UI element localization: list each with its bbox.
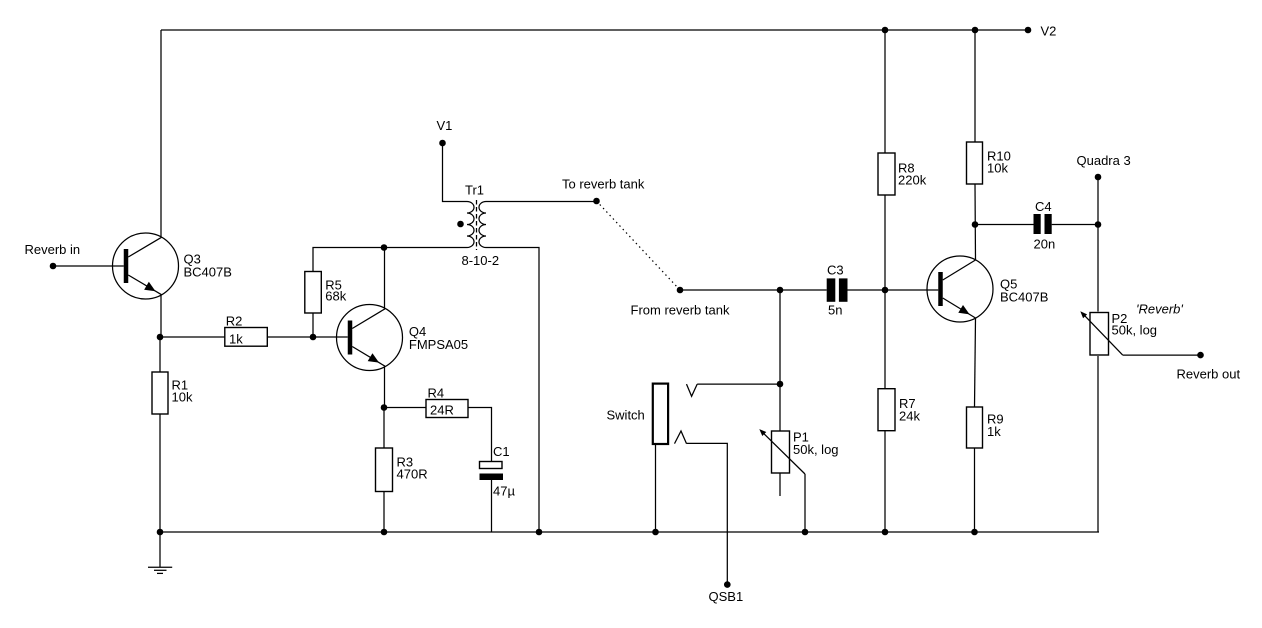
wire R2 to node B [267,336,313,338]
transistor Q4 [337,305,469,371]
wire node to Q4 base [313,336,348,338]
wire R5 top to transformer primary bottom [313,248,467,272]
switch jack body [607,384,669,444]
svg-text:Tr1: Tr1 [465,183,484,198]
svg-text:470R: 470R [397,467,428,482]
resistor R4 [426,386,468,418]
resistor R5 [305,272,347,314]
wire R8 to node [884,195,886,290]
wire dotted link to From reverb tank [597,201,681,290]
wire node to R2 [160,336,225,338]
wire node to R4 [384,407,426,409]
svg-text:V1: V1 [437,118,453,133]
wire node to R1 [159,337,161,372]
node rail at switch [652,529,659,536]
capacitor C4 [1034,199,1056,252]
resistor R7 [878,389,920,431]
wire R4 to C1 [468,408,492,462]
wire bottom ground rail [160,531,1099,533]
svg-text:1k: 1k [229,332,243,347]
wire R3 to rail [383,492,385,533]
wire node up to R5 [312,313,314,337]
capacitor C3 [827,263,848,318]
wire V1 to transformer [443,143,468,202]
svg-text:220k: 220k [898,173,927,188]
node Quadra wire at C4 [1095,221,1102,228]
wire P2 bottom to rail [1097,356,1099,532]
svg-text:BC407B: BC407B [1000,290,1048,305]
terminal To reverb tank [562,177,645,205]
wire transformer secondary bottom down to rail [486,248,539,533]
wire P1 stub [779,473,781,497]
svg-text:Switch: Switch [607,408,645,423]
terminal V2 [1025,24,1057,39]
wire transformer secondary top to To reverb tank [486,201,597,203]
switch tip contact V [687,384,698,396]
wire R7 to rail [884,431,886,532]
svg-text:'Reverb': 'Reverb' [1136,302,1183,317]
svg-text:Quadra 3: Quadra 3 [1077,153,1131,168]
svg-text:V2: V2 [1041,24,1057,39]
node R2 / R5 / Q4 base [310,334,317,341]
terminal Reverb out [1177,352,1241,382]
wire Q4 emitter down [384,366,386,407]
wire C4 to Quadra wire [1052,224,1098,226]
wire node to C4 [975,224,1034,226]
node rail at P1 [802,529,809,536]
node C3 / R8 / R7 [882,287,889,294]
wire node down to R7 [884,290,886,389]
wire switch body to rail [655,443,657,532]
node Q3 emitter / R1 / R2 [157,334,164,341]
node Q4 collector on wire [381,244,388,251]
wire node down to R3 [383,408,385,449]
resistor R1 [152,372,193,414]
node rail at R9 [971,529,978,536]
svg-text:24k: 24k [899,409,920,424]
wire rail down to R8 [884,30,886,153]
ground [148,532,172,573]
resistor R10 [967,142,1011,184]
wire P2 wiper to Reverb out [1123,354,1201,356]
svg-text:R2: R2 [226,314,243,329]
potentiometer P1 [759,429,838,474]
wire R9 to rail [974,448,976,532]
svg-text:1k: 1k [987,424,1001,439]
wire P1 wiper down to rail [804,474,806,532]
svg-text:50k, log: 50k, log [1112,323,1158,338]
node rail at transformer [536,529,543,536]
resistor R9 [967,407,1004,448]
resistor R2 [225,314,267,347]
svg-text:5n: 5n [828,303,842,318]
terminal From reverb tank [631,287,730,318]
wire R10 down to Q5 collector [974,184,977,260]
svg-text:Reverb in: Reverb in [25,242,81,257]
wire Q3 emitter down to node [160,295,162,337]
wire Q5 emitter down to R9 [975,318,976,407]
wire C3 to Q5 base [848,289,939,291]
terminal Quadra 3 [1077,153,1131,180]
wire From reverb tank to C3 [680,289,827,291]
svg-text:50k, log: 50k, log [793,442,839,457]
wire R1 to ground rail [159,414,161,532]
svg-text:20n: 20n [1034,237,1056,252]
svg-text:C4: C4 [1035,199,1052,214]
transformer Tr1 [457,183,499,269]
terminal Reverb in [25,242,81,269]
svg-text:QSB1: QSB1 [709,589,744,604]
svg-text:From reverb tank: From reverb tank [631,303,730,318]
node top rail at R8 [882,27,889,34]
svg-text:FMPSA05: FMPSA05 [409,337,468,352]
capacitor C1 [480,444,516,499]
wire node down to Q4 collector [384,248,386,309]
resistor R8 [878,153,927,195]
node P1 top [777,381,784,388]
svg-text:47µ: 47µ [493,484,515,499]
terminal V1 [437,118,453,146]
wire switch sleeve to QSB1 [687,443,728,584]
svg-text:10k: 10k [172,390,193,405]
svg-text:R4: R4 [428,386,445,401]
wire Quadra 3 down to P2 [1097,177,1099,312]
transistor Q5 [927,256,1048,322]
svg-text:8-10-2: 8-10-2 [462,253,500,268]
svg-text:24R: 24R [430,403,454,418]
node Q4 emitter / R4 / R3 [381,404,388,411]
node C4 branch [972,221,979,228]
potentiometer P2 [1080,302,1183,356]
wire left vertical from top rail to Q3 collector [160,30,162,237]
node rail at R3 [381,529,388,536]
wire rail down to R10 [974,30,976,142]
node top rail at R10 [972,27,979,34]
svg-text:Reverb out: Reverb out [1177,367,1241,382]
node rail at R7 [882,529,889,536]
svg-text:10k: 10k [987,161,1008,176]
wire Reverb in to Q3 base [53,265,124,267]
svg-text:BC407B: BC407B [184,265,232,280]
wire switch tip to P1 node [697,383,780,385]
svg-text:To reverb tank: To reverb tank [562,177,645,192]
node rail at R1 [157,529,164,536]
wire C1 to rail [491,480,493,532]
terminal QSB1 [709,581,744,604]
svg-text:68k: 68k [325,289,346,304]
resistor R3 [376,448,428,492]
svg-text:C1: C1 [493,444,510,459]
node P1 branch [777,287,784,294]
transistor Q3 [113,233,232,299]
switch sleeve contact caret [675,431,687,444]
svg-text:C3: C3 [827,263,844,278]
wire top rail V2 [161,29,1028,31]
wire P1 node up to From reverb tank wire [779,290,781,431]
